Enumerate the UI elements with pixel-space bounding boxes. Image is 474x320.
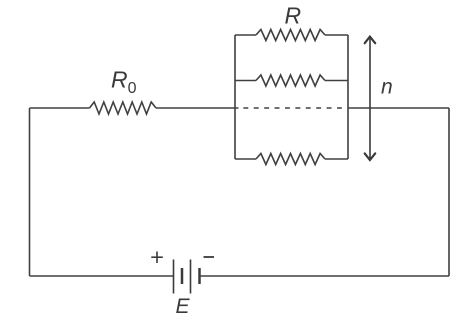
node right rail (bus of parallel bank) bbox=[347, 35, 349, 159]
wire dashed continuation (hidden rows) bbox=[243, 107, 348, 109]
resistor R (row 1) bbox=[256, 30, 325, 41]
minus sign (battery negative) bbox=[204, 256, 215, 258]
battery long plate 2 bbox=[190, 260, 192, 294]
wire battery to bottom right bbox=[200, 275, 449, 277]
wire R0 to left rail bbox=[156, 107, 239, 109]
wire right vertical bbox=[448, 108, 450, 276]
svg-text:E: E bbox=[176, 295, 191, 318]
wire row n right lead bbox=[325, 158, 348, 160]
resistor row n bbox=[256, 154, 325, 165]
wire row1 right lead bbox=[325, 34, 348, 36]
wire right rail to right vertical bbox=[348, 107, 449, 109]
node left rail (bus of parallel bank) bbox=[234, 35, 236, 159]
battery short plate 2 bbox=[198, 268, 201, 284]
wire row1 left lead bbox=[235, 34, 256, 36]
wire top-left segment bbox=[30, 107, 90, 109]
wire row n left lead bbox=[235, 158, 256, 160]
resistor row 2 bbox=[256, 75, 325, 86]
svg-text:R0: R0 bbox=[111, 67, 137, 98]
wire left vertical bbox=[29, 108, 31, 276]
battery short plate 1 bbox=[181, 268, 184, 284]
svg-text:n: n bbox=[381, 76, 393, 99]
battery long plate 1 bbox=[173, 260, 175, 294]
svg-text:R: R bbox=[285, 3, 302, 29]
resistor R0 bbox=[90, 102, 157, 114]
wire row2 left lead bbox=[235, 80, 256, 82]
arrow n-count double-headed bbox=[365, 37, 376, 160]
wire bottom left to battery bbox=[30, 275, 174, 277]
plus sign (battery positive) bbox=[151, 252, 163, 264]
battery E cell plates bbox=[174, 260, 200, 294]
wire row2 right lead bbox=[325, 80, 348, 82]
